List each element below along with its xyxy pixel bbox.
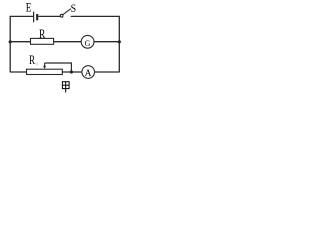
galvanometer G	[81, 35, 94, 48]
switch S (pivot and open blade)	[60, 9, 71, 17]
label R' (rheostat)	[29, 53, 38, 67]
ammeter A	[82, 66, 95, 80]
svg-text:A: A	[85, 69, 92, 79]
wire: rheostat to ammeter	[62, 71, 82, 73]
wire: slider tap to bottom node	[45, 63, 72, 72]
wire: left vertical	[9, 16, 11, 73]
svg-text:R: R	[39, 27, 46, 41]
wire: galvanometer to right junction	[94, 41, 119, 43]
svg-text:o: o	[35, 62, 38, 67]
node: slider tap junction	[70, 70, 73, 73]
wire: bottom-left (corner to rheostat)	[10, 71, 26, 73]
wire: resistor R to galvanometer	[54, 41, 82, 43]
rheostat slider arrow	[43, 63, 46, 69]
svg-text:E: E	[26, 1, 32, 15]
resistor R body	[31, 38, 54, 44]
svg-text:G: G	[85, 39, 91, 48]
node: left junction	[9, 40, 12, 43]
battery E	[34, 12, 38, 23]
wire: battery to switch	[38, 15, 60, 17]
wire: switch to top-right corner	[71, 15, 120, 17]
wire: top-left horizontal (corner to battery)	[10, 15, 33, 17]
label 甲 (caption, drawn as strokes)	[62, 82, 69, 93]
wire: left junction to resistor R	[10, 41, 30, 43]
svg-text:S: S	[71, 1, 77, 15]
wire: ammeter to bottom-right corner	[95, 71, 120, 73]
wire: right vertical	[118, 16, 120, 73]
node: right junction	[118, 40, 121, 43]
rheostat R' body	[27, 69, 63, 74]
